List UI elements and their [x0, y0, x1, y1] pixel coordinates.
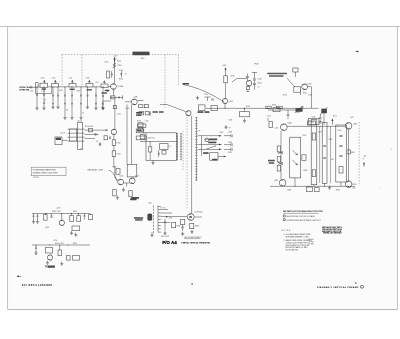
svg-text:C116: C116	[119, 70, 123, 72]
conn resistor R408	[190, 223, 194, 228]
note table box	[31, 167, 66, 175]
svg-text:R142: R142	[117, 143, 121, 145]
svg-text:Q280: Q280	[288, 123, 292, 125]
svg-text:VOLTAGES AND WAVEFORMS: VOLTAGES AND WAVEFORMS	[32, 168, 56, 171]
thermistor symbol	[205, 138, 209, 142]
ground top of cluster	[224, 125, 227, 129]
aux2 box	[46, 248, 53, 254]
rail junctions	[267, 108, 268, 109]
svg-text:R114: R114	[118, 65, 122, 67]
crt shield label	[267, 73, 287, 75]
svg-text:PARTIAL A4 + SEE: PARTIAL A4 + SEE	[87, 169, 103, 172]
gnd symbol small	[196, 96, 199, 100]
mid cap C242	[246, 74, 248, 77]
interstage rail	[206, 107, 316, 109]
page bottom edge	[8, 309, 398, 311]
right rail resistor	[347, 150, 350, 154]
cap C114	[111, 73, 113, 76]
aux2 grounds	[46, 261, 49, 265]
wire delay to amp lower	[85, 137, 96, 139]
corner label	[130, 198, 136, 200]
delay gnd	[98, 142, 101, 146]
resistor R101	[36, 83, 39, 87]
res R258	[293, 68, 298, 72]
delay line DL1	[78, 123, 83, 150]
left column resistor c	[277, 166, 280, 172]
column B marks	[312, 133, 315, 140]
shunt capacitor C115	[64, 86, 65, 87]
page top edge	[0, 26, 400, 28]
tap end parts 3	[231, 148, 232, 151]
svg-text:R220: R220	[113, 167, 117, 169]
svg-text:DL150: DL150	[61, 133, 66, 135]
rail box 2	[276, 106, 282, 108]
svg-text:ATTEN SW: ATTEN SW	[19, 89, 29, 92]
top small boxes	[138, 123, 143, 127]
svg-text:J401: J401	[149, 203, 152, 205]
shunt capacitor C113	[52, 86, 53, 87]
transistor Q9	[279, 180, 286, 187]
resistor R114	[113, 63, 116, 68]
connector body	[147, 214, 152, 221]
tp bar	[252, 71, 257, 73]
hatched text under rail	[198, 111, 204, 113]
tall column C	[322, 122, 327, 183]
shunt capacitor C120	[102, 86, 103, 87]
left edge resistor	[269, 122, 272, 128]
attenuator label	[42, 88, 46, 89]
trimmer arrow C107	[71, 80, 73, 83]
svg-text:R406: R406	[177, 226, 181, 228]
svg-text:+12V R420: +12V R420	[194, 212, 203, 214]
svg-text:PARTIAL VERTICAL PREAMP BD: PARTIAL VERTICAL PREAMP BD	[182, 241, 211, 244]
conn parts stack	[180, 220, 184, 225]
svg-text:47: 47	[44, 100, 46, 102]
svg-text:R274: R274	[310, 122, 314, 124]
svg-text:R210 R212: R210 R212	[85, 126, 93, 128]
svg-text:DL150: DL150	[78, 120, 83, 122]
svg-text:R246: R246	[229, 120, 233, 122]
bottom bank rail	[270, 185, 355, 187]
pot blob R270	[296, 108, 303, 112]
shield dashed drop 4	[178, 55, 180, 85]
transistor Q1	[111, 84, 117, 90]
wire	[48, 86, 52, 88]
tap end cap 1	[231, 134, 232, 137]
U420 cap	[158, 152, 160, 155]
svg-text:NOTE 1: NOTE 1	[33, 177, 39, 179]
wire	[93, 86, 101, 88]
relay box K1	[210, 153, 218, 161]
relay wire out	[218, 156, 225, 158]
shield dashed drop 2	[81, 55, 83, 87]
top bank small box	[307, 121, 315, 125]
conn gnd arrow	[150, 233, 153, 237]
aux cap right	[84, 214, 86, 216]
resistor below b	[129, 191, 132, 197]
svg-text:15: 15	[82, 113, 84, 115]
svg-text:R280: R280	[304, 170, 308, 172]
svg-text:R302 C302: R302 C302	[52, 211, 61, 213]
lower shield dashed wire	[186, 111, 188, 209]
shield dashed top wire	[62, 54, 179, 56]
bank box on wire	[273, 108, 280, 112]
aux box right edge	[89, 215, 93, 220]
aux box lower	[72, 226, 80, 231]
resistor R118 box	[113, 106, 116, 109]
svg-text:+12V: +12V	[56, 207, 61, 209]
right shield dashed wire	[358, 122, 360, 184]
U420 ground	[151, 161, 154, 165]
Q5b emitter	[224, 104, 226, 109]
aux box left	[44, 215, 48, 221]
switch lever	[206, 146, 215, 149]
top row caps	[149, 112, 151, 115]
left bank rail	[280, 131, 282, 180]
svg-text:C109: C109	[86, 78, 90, 80]
main pin wire	[161, 216, 187, 218]
svg-text:R252: R252	[272, 105, 276, 107]
svg-text:R240: R240	[231, 76, 235, 78]
wire	[38, 86, 40, 88]
aux2 label box	[48, 266, 55, 268]
lower aux rail	[32, 244, 90, 246]
svg-text:+: +	[380, 187, 381, 189]
hatched label row A	[209, 139, 217, 141]
delay line taps	[68, 128, 85, 130]
svg-text:C228: C228	[228, 131, 232, 133]
shield label	[133, 52, 150, 56]
aux resistor b	[77, 216, 81, 222]
margin arrow	[17, 275, 21, 277]
left cap 2	[37, 214, 39, 216]
svg-text:Q302: Q302	[45, 227, 49, 229]
hybrid block U420	[146, 133, 177, 161]
svg-text:R284: R284	[336, 190, 340, 192]
svg-text:4.7: 4.7	[258, 87, 260, 89]
tap wire 2	[198, 144, 222, 146]
connector P11	[55, 137, 62, 145]
shunt capacitor C112	[43, 87, 44, 88]
shunt capacitor C111	[36, 87, 37, 88]
svg-text:562: 562	[353, 187, 356, 189]
emitter join wires	[124, 182, 130, 184]
top row labels	[153, 111, 158, 113]
diag wire to Q4	[167, 105, 186, 112]
long collector drop Q4	[191, 116, 193, 214]
bank stubs	[294, 178, 296, 186]
wire	[113, 156, 115, 167]
svg-text:R144: R144	[117, 154, 121, 156]
tall column D	[336, 125, 347, 182]
resistor boxes right of Q2	[139, 105, 143, 108]
cap to gnd	[205, 96, 211, 98]
tap end cap 2	[231, 143, 232, 146]
tall column B	[311, 120, 317, 185]
resistor R240 box	[224, 76, 228, 83]
transistor Q402	[187, 214, 194, 221]
svg-text:C280: C280	[338, 130, 342, 132]
svg-text:620: 620	[331, 159, 334, 161]
page left edge	[7, 27, 9, 310]
Q3 emitter chain	[113, 135, 115, 140]
svg-text:L101: L101	[42, 91, 46, 93]
legend item 2	[283, 219, 285, 221]
svg-text:TP: TP	[199, 131, 201, 133]
aux resistor a	[70, 216, 74, 222]
label under L109	[102, 92, 107, 93]
svg-text:R312: R312	[73, 243, 77, 245]
drop box	[198, 105, 205, 111]
transistor Q5	[246, 80, 252, 86]
component box	[138, 124, 146, 127]
U420 inner box	[160, 144, 168, 150]
component box hatched	[136, 129, 144, 133]
inductor L103 box	[52, 84, 59, 88]
svg-text:R262: R262	[296, 112, 300, 114]
bottom bracket parts	[307, 187, 313, 192]
tap wire 1	[198, 135, 222, 137]
svg-text:Q258: Q258	[308, 84, 312, 86]
decoupling box	[240, 112, 250, 117]
svg-text:93: 93	[81, 149, 83, 151]
wire	[76, 86, 86, 88]
resistor R144	[112, 151, 115, 157]
svg-text:U420 1%: U420 1%	[147, 138, 155, 140]
svg-text:33: 33	[66, 110, 68, 112]
aux2 junctions	[35, 244, 36, 245]
vertical pair b	[131, 105, 133, 165]
svg-text:-464 OSCILLOSCOPE: -464 OSCILLOSCOPE	[21, 284, 53, 287]
svg-text:Q136: Q136	[134, 97, 138, 99]
supply arrows top	[331, 118, 333, 121]
shunt capacitor C117	[80, 86, 81, 87]
svg-text:C230: C230	[228, 142, 232, 144]
shield dashed drop left	[61, 55, 63, 87]
svg-text:TP: TP	[229, 128, 231, 130]
svg-text:2: 2	[361, 287, 362, 289]
ground Q3 pair	[122, 188, 125, 192]
wire down to Q5b	[225, 83, 227, 99]
aux2 left cap	[35, 245, 37, 247]
left column resistor a	[277, 146, 280, 152]
decoupling gnd	[243, 119, 246, 123]
top row box	[139, 112, 144, 115]
label under L105	[70, 89, 75, 90]
legend item 1	[283, 215, 285, 217]
right bank rail	[348, 129, 350, 181]
svg-text:C140: C140	[145, 121, 149, 123]
svg-text:R282: R282	[288, 190, 292, 192]
tiny arrow mark top right	[356, 51, 359, 53]
wire to Q1	[108, 86, 110, 88]
branch diag	[232, 79, 237, 83]
svg-text:75: 75	[355, 283, 357, 285]
rail source label	[183, 83, 190, 85]
transistor Q8	[345, 123, 352, 130]
RC pair on emitter	[111, 96, 123, 98]
svg-text:C264: C264	[275, 128, 279, 130]
U420 inner wire	[140, 140, 177, 142]
svg-text:4.7: 4.7	[125, 74, 127, 76]
bypass cap C244	[253, 73, 255, 79]
U420 inner mark	[162, 151, 166, 155]
small cap bars	[212, 98, 213, 101]
svg-text:R472 C474: R472 C474	[161, 236, 169, 238]
svg-text:P/O A4: P/O A4	[162, 240, 177, 245]
transistor Q10	[345, 181, 352, 188]
svg-text:R116: R116	[119, 79, 123, 81]
left column resistor b	[277, 157, 280, 163]
loop cap C102	[31, 86, 32, 88]
cap C258 box	[294, 87, 301, 92]
svg-text:NOTED ABOVE: NOTED ABOVE	[286, 248, 299, 251]
column D caps	[339, 135, 342, 136]
aux bars	[51, 215, 52, 218]
svg-text:C105: C105	[52, 78, 56, 80]
shunt capacitor C118	[87, 86, 88, 87]
inductor L107 box	[86, 84, 93, 88]
svg-text:R286: R286	[351, 152, 355, 154]
svg-text:R138: R138	[137, 121, 141, 123]
drop box 2	[211, 106, 218, 111]
aux2 resistor b	[67, 256, 71, 261]
diode a	[278, 152, 283, 154]
conn resistor R404	[172, 222, 176, 227]
block A side box	[302, 155, 306, 161]
Q5 emitter box	[246, 87, 249, 90]
label below chain	[105, 90, 110, 91]
svg-text:93: 93	[96, 141, 98, 143]
svg-text:Q244: Q244	[229, 101, 233, 103]
svg-text:+20: +20	[363, 156, 366, 158]
svg-text:SEE MEASUREMENT COND: SEE MEASUREMENT COND	[286, 235, 310, 238]
svg-text:Q134A: Q134A	[118, 85, 124, 88]
shield dashed drop 3	[164, 55, 166, 108]
transistor Q6	[302, 84, 308, 90]
transistor Q12	[47, 255, 52, 260]
transistor Q3a	[118, 179, 124, 185]
trimmer arrow C103	[43, 80, 45, 83]
bottom gnd	[328, 186, 331, 190]
upper bank rail	[287, 125, 345, 127]
supply arrow right	[363, 162, 365, 165]
feedback loop wire	[36, 87, 52, 94]
elbow from rail	[316, 107, 319, 109]
series resistor box upper	[89, 128, 93, 132]
bank inner verticals	[319, 126, 321, 183]
svg-text:SEE PARTS LIST FOR SEMICONDUCT: SEE PARTS LIST FOR SEMICONDUCTOR TYPES	[283, 210, 324, 213]
diode b	[278, 162, 283, 164]
svg-text:R450: R450	[220, 132, 224, 134]
svg-text:OBTAINED UNDER COND GIVEN: OBTAINED UNDER COND GIVEN	[32, 172, 58, 175]
connector label	[134, 217, 143, 219]
resistor R112 box	[107, 71, 110, 78]
svg-text:C236: C236	[204, 94, 208, 96]
svg-text:Q150: Q150	[120, 176, 124, 178]
svg-text:8 7 6 5: 8 7 6 5	[161, 207, 166, 209]
svg-text:+: +	[54, 217, 55, 219]
mid wire bars	[95, 133, 96, 136]
pin wires	[161, 209, 168, 211]
rail box 1	[266, 106, 271, 108]
svg-text:R232: R232	[228, 152, 232, 154]
svg-text:DENOTES DECOUPLED VOLTAGE: DENOTES DECOUPLED VOLTAGE	[286, 215, 315, 218]
page right edge	[396, 27, 398, 310]
svg-text:Q152: Q152	[135, 176, 139, 178]
resistor R142	[112, 140, 115, 146]
svg-text:Q270: Q270	[312, 117, 316, 119]
svg-text:R260: R260	[303, 93, 307, 95]
transistor Q2	[131, 99, 137, 105]
output block A	[290, 137, 301, 178]
left rail of cluster	[201, 136, 203, 156]
collector wire Q1	[113, 58, 115, 84]
shield diag wire	[287, 78, 295, 87]
inner dashed wire	[182, 131, 184, 170]
svg-text:K450: K450	[206, 139, 210, 141]
aux grounds	[70, 231, 73, 235]
svg-text:R272: R272	[333, 116, 337, 118]
delay line inner rect	[70, 129, 77, 141]
tap wire 3	[198, 148, 222, 150]
up arrow supply	[225, 67, 227, 70]
trimmer arrow C109	[88, 80, 90, 83]
emitter wire Q1	[113, 89, 115, 95]
aux junctions	[45, 213, 46, 214]
transistor Q5b	[222, 98, 227, 103]
svg-text:C244: C244	[258, 79, 262, 81]
ground lower left	[116, 196, 119, 200]
rail curve from Q2	[183, 85, 224, 102]
aux2 box b	[73, 256, 80, 261]
transistor Q7	[281, 124, 288, 131]
wire down a	[114, 167, 116, 178]
svg-text:DIAGRAM 2 VERTICAL PREAMP: DIAGRAM 2 VERTICAL PREAMP	[317, 286, 359, 289]
wire delay to amp mid	[85, 133, 99, 135]
Q402 out wire	[194, 216, 202, 218]
attenuator box A1	[40, 83, 48, 87]
svg-text:C102: C102	[30, 91, 34, 93]
interconnect pin ladder J1	[176, 133, 178, 160]
svg-text:R408: R408	[195, 226, 199, 228]
aux2 sym	[45, 265, 47, 268]
svg-text:GND: GND	[141, 58, 146, 60]
svg-text:R250: R250	[246, 106, 250, 108]
top cap gnd	[319, 114, 321, 117]
inductor L105 box	[69, 84, 76, 88]
inductor L109 box	[101, 84, 108, 88]
left cap 1	[33, 214, 35, 216]
conn cap C404	[164, 219, 166, 222]
bias resistor box	[116, 169, 120, 175]
upper aux rail	[32, 213, 90, 215]
transistor Q4	[186, 111, 191, 116]
svg-text:C262: C262	[267, 116, 271, 118]
resistor below a	[113, 190, 116, 196]
U420 resistor	[148, 147, 151, 152]
top bank wire	[268, 109, 303, 111]
vertical pair a	[126, 105, 128, 165]
transistor Q11	[59, 220, 64, 225]
shunt capacitor C114	[57, 86, 58, 87]
wire delay to amp upper	[85, 129, 109, 131]
hatched rows	[136, 112, 142, 114]
component box 3	[136, 136, 146, 140]
svg-text:Q282: Q282	[274, 180, 278, 182]
label under	[131, 197, 139, 199]
shield stub symbol	[113, 57, 116, 62]
